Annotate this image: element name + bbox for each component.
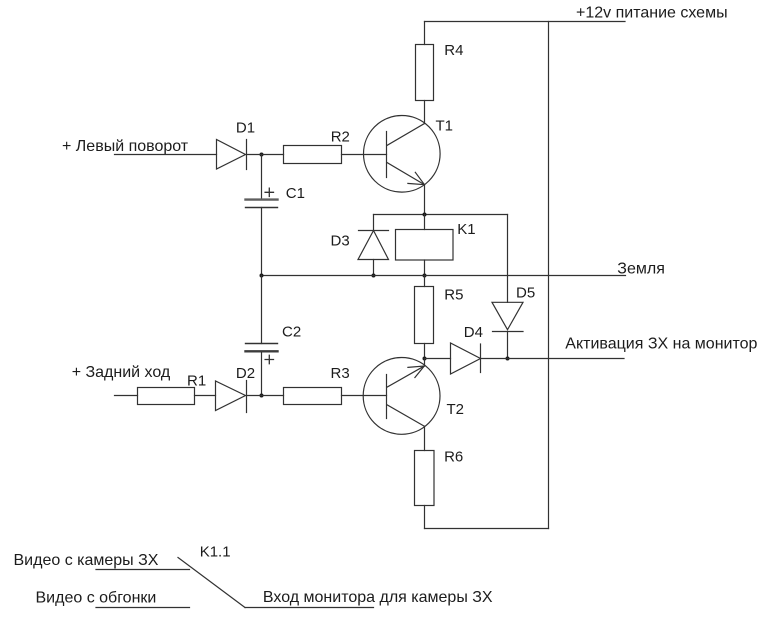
node junction D3/ground: [372, 274, 376, 278]
capacitor C2: [246, 276, 302, 364]
svg-text:C1: C1: [286, 185, 305, 202]
svg-text:+12v питание схемы: +12v питание схемы: [576, 5, 728, 22]
wire T2 emitter to junction: [424, 359, 426, 367]
wire bottom return to +12v bus: [425, 528, 549, 530]
wire R4 to T1 collector: [424, 101, 426, 124]
wire ground line: [262, 275, 626, 277]
svg-text:R1: R1: [187, 373, 206, 390]
node junction R5/T2/D4: [423, 357, 427, 361]
wire R3 to T2 base: [342, 395, 387, 397]
resistor R1: [138, 373, 207, 405]
wire T2 collector to R6: [424, 426, 426, 450]
wire camera video stub: [96, 569, 190, 571]
svg-text:R2: R2: [331, 129, 350, 146]
diode D5: [492, 215, 535, 359]
diode D4: [425, 324, 483, 374]
svg-text:D2: D2: [236, 365, 255, 382]
svg-text:Вход монитора для камеры ЗХ: Вход монитора для камеры ЗХ: [263, 589, 493, 606]
wire D2 to R3: [247, 395, 284, 397]
wire K1 top horizontal: [374, 214, 508, 216]
resistor R5: [415, 276, 464, 359]
svg-text:R3: R3: [331, 365, 350, 382]
transistor T2: [363, 358, 464, 435]
svg-text:D3: D3: [331, 233, 350, 250]
wire C2 to D2 node: [261, 353, 263, 396]
node junction K1/R5/ground: [423, 274, 427, 278]
node junction T1 emitter / K1 line: [423, 213, 427, 217]
wire activation output line: [481, 358, 625, 360]
svg-text:R6: R6: [444, 449, 463, 466]
wire long vertical +12v bus: [548, 22, 550, 529]
node junction C1/C2/ground: [260, 274, 264, 278]
svg-text:D4: D4: [464, 324, 483, 341]
diode D2: [216, 365, 256, 413]
transistor T1: [364, 116, 454, 193]
svg-text:Активация ЗХ на монитор: Активация ЗХ на монитор: [565, 336, 757, 353]
diode D3: [331, 215, 389, 276]
svg-text:K1: K1: [457, 221, 475, 238]
wire monitor input stub: [245, 607, 374, 609]
svg-text:R4: R4: [444, 42, 463, 59]
svg-text:Видео с камеры ЗХ: Видео с камеры ЗХ: [14, 552, 159, 569]
wire R6 to bottom rail: [424, 506, 426, 529]
wire overtake video stub: [96, 607, 190, 609]
wire T1 emitter down: [424, 185, 426, 215]
wire R1 to D2: [195, 395, 216, 397]
node junction D5/activation line: [506, 357, 510, 361]
wire R2 to T1 base: [342, 154, 387, 156]
relay coil K1: [396, 215, 476, 276]
svg-text:C2: C2: [282, 324, 301, 341]
capacitor C1: [246, 155, 305, 208]
wire left turn input: [115, 154, 217, 156]
svg-text:D1: D1: [236, 120, 255, 137]
wire D1 to R2: [247, 154, 284, 156]
svg-text:+ Задний ход: + Задний ход: [72, 364, 171, 381]
resistor R3: [284, 365, 350, 405]
diode D1: [217, 120, 256, 170]
resistor R4: [416, 45, 434, 101]
wire switch arm K1.1: [178, 558, 245, 608]
svg-text:T1: T1: [436, 118, 454, 135]
node junction D2/C2/R3: [260, 394, 264, 398]
wire rail to R4: [424, 22, 426, 45]
svg-text:+ Левый поворот: + Левый поворот: [62, 138, 189, 155]
svg-text:K1.1: K1.1: [200, 544, 231, 561]
resistor R2: [284, 146, 342, 164]
resistor R6: [415, 449, 464, 506]
wire reverse input: [115, 395, 138, 397]
wire +12v power rail: [425, 21, 626, 23]
node A junction D1/R2/C1: [260, 153, 264, 157]
svg-text:D5: D5: [516, 285, 535, 302]
svg-text:Земля: Земля: [617, 260, 665, 277]
svg-text:T2: T2: [447, 401, 465, 418]
svg-text:Видео с обгонки: Видео с обгонки: [36, 590, 157, 607]
wire C1 to ground node: [261, 208, 263, 276]
svg-text:R5: R5: [444, 287, 463, 304]
